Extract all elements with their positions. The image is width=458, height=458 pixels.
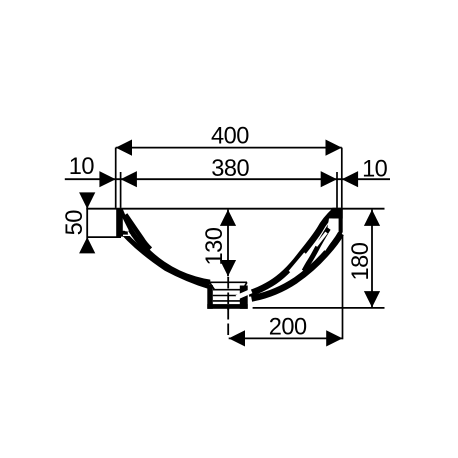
wire 50 bottom extent line [87, 236, 121, 238]
drain horizontal line 2 [213, 295, 243, 297]
arrow 130 bottom pointing down [220, 260, 236, 276]
arrow 50 top pointing down [79, 192, 95, 208]
arrow 380 left pointing left [121, 171, 137, 187]
arrow 10 right pointing left [342, 171, 358, 187]
drain left wall bar [207, 285, 213, 309]
basin right inner surface curve [249, 211, 336, 294]
basin left rim inner edge [126, 215, 151, 250]
basin right outer wall bar [339, 209, 343, 237]
svg-text:380: 380 [211, 156, 249, 182]
basin right wall middle contour [304, 226, 330, 271]
basin right rim tip [327, 208, 343, 219]
arrow 200 right pointing right [326, 330, 342, 346]
wire 130 dimension vertical line [227, 210, 229, 277]
wire 380/10 dimension line [65, 178, 390, 180]
basin right wall white slash A [316, 233, 327, 247]
basin left outer wall curve [122, 232, 209, 287]
basin right wall white slash C [290, 254, 306, 273]
arrow 50 bottom pointing up [79, 237, 95, 253]
arrow 180 top pointing up [364, 210, 380, 226]
svg-text:130: 130 [202, 227, 228, 265]
drain horizontal line 1 [213, 289, 243, 291]
wire 380 right extension line [336, 172, 338, 208]
arrow 10 left pointing right [99, 171, 115, 187]
basin left rim wedge [116, 209, 128, 237]
basin right rim white wedge [328, 218, 339, 233]
arrow 130 top pointing up [220, 210, 236, 226]
basin right wall white slash B [324, 237, 333, 251]
wire dashed centerline of drain [227, 277, 229, 338]
svg-text:10: 10 [69, 154, 95, 180]
drain interior white mask [210, 278, 244, 305]
svg-text:50: 50 [62, 210, 88, 236]
wire 180 bottom extent line [253, 307, 385, 309]
basin left rim bottom white slit [123, 234, 131, 236]
drain right wall bar [240, 286, 248, 309]
svg-text:10: 10 [362, 156, 388, 182]
svg-text:400: 400 [211, 124, 249, 150]
drain bottom bar [207, 304, 247, 309]
wire dashed centerline inside drain [227, 277, 229, 310]
wire 200 dimension line [229, 337, 343, 339]
arrow 180 bottom pointing down [364, 291, 380, 307]
wire 380 left extension line [120, 172, 122, 208]
basin left inner surface curve [121, 210, 230, 284]
wire 400 left extension line [115, 148, 117, 208]
wire 200 right extension line [342, 236, 344, 339]
wire 180 dimension vertical line [371, 210, 373, 308]
basin left rim white hole [122, 218, 129, 231]
wire rim top level line [86, 208, 384, 210]
arrow 400 right [326, 140, 342, 156]
svg-text:180: 180 [348, 242, 374, 280]
arrow 380 right pointing right [321, 171, 337, 187]
basin right outer wall curve [252, 234, 342, 299]
arrow 200 left pointing left [229, 330, 245, 346]
arrow 400 left [116, 140, 132, 156]
drain horizontal line 3 [213, 300, 243, 302]
svg-text:200: 200 [269, 315, 307, 341]
wire 400 dimension line [116, 147, 342, 149]
drain gap white stripe through right bar [237, 291, 252, 298]
drain funnel trapezoid [210, 282, 248, 289]
wire 400 right extension line [341, 148, 343, 208]
wire 50 dimension vertical line [86, 194, 88, 253]
